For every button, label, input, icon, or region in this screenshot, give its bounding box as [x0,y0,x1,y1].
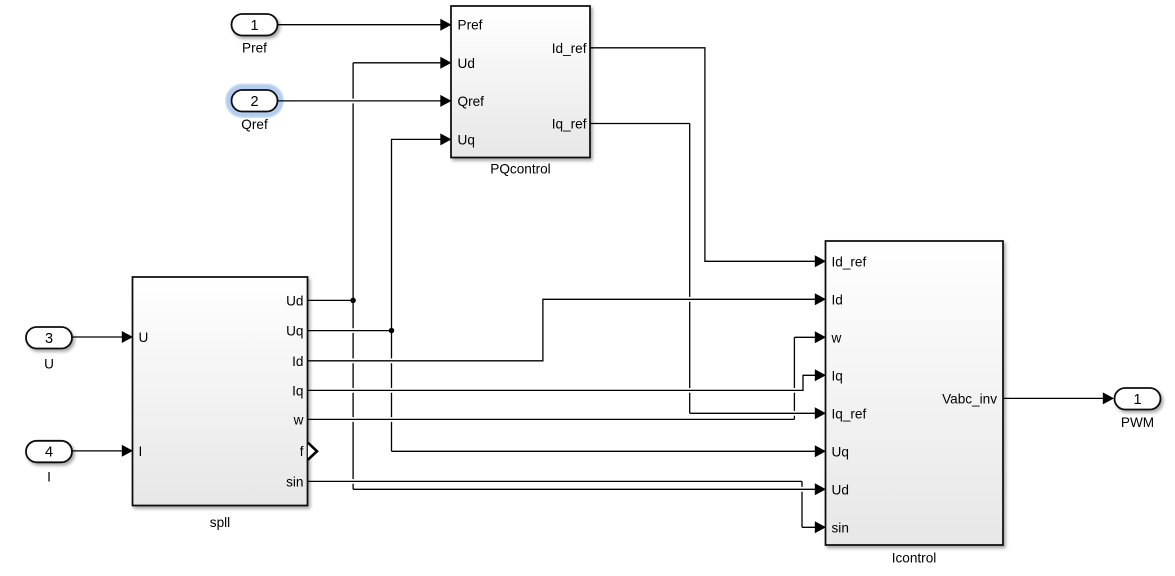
wire spll.Iq to Icontrol.Iq [308,375,817,390]
svg-text:sin: sin [286,474,303,489]
svg-text:Pref: Pref [242,41,267,56]
wire Pref port to PQcontrol.Pref [278,24,442,26]
svg-text:Qref: Qref [241,117,268,132]
wire Icontrol.Vabc_inv to PWM outport [1003,397,1104,399]
svg-text:Ud: Ud [832,482,849,497]
junction dot Uq [389,328,395,334]
inport 4 I [26,441,72,463]
svg-text:Iq: Iq [832,368,843,383]
svg-text:1: 1 [1133,392,1141,408]
wire spll.Uq to junction [308,330,392,332]
svg-text:Ud: Ud [286,293,303,308]
svg-text:Iq_ref: Iq_ref [552,117,587,132]
svg-text:Iq_ref: Iq_ref [832,406,867,421]
svg-text:sin: sin [832,520,849,535]
wire spll.sin to Icontrol.sin [308,481,817,527]
svg-text:Id: Id [832,292,843,307]
svg-text:I: I [47,470,51,485]
svg-text:Icontrol: Icontrol [892,551,937,566]
wire junction down to Icontrol.Uq [392,331,817,452]
svg-text:U: U [139,330,149,345]
svg-text:spll: spll [210,515,230,530]
wire U port to spll.U [72,336,122,338]
svg-text:U: U [44,357,54,372]
svg-text:Pref: Pref [458,18,483,33]
inport 1 Pref [232,14,278,36]
wire junction up to PQcontrol.Ud [353,63,441,301]
svg-text:3: 3 [45,331,53,347]
subsystem block spll [133,277,308,506]
svg-text:PQcontrol: PQcontrol [490,162,550,177]
svg-text:Ud: Ud [458,56,475,71]
svg-text:Id_ref: Id_ref [832,254,867,269]
outport 1 PWM [1115,388,1161,410]
wire PQcontrol.Id_ref to Icontrol.Id_ref [590,48,816,261]
inport 2 Qref (selected halo) [227,86,282,117]
svg-text:Uq: Uq [286,324,303,339]
junction dot Ud [350,298,356,304]
unconnected output port f chevron [308,443,317,460]
subsystem block PQcontrol [451,6,590,158]
svg-text:1: 1 [250,18,258,34]
wire Qref port to PQcontrol.Qref [278,100,442,102]
svg-text:PWM: PWM [1121,415,1154,430]
wire junction down to Icontrol.Ud [353,300,816,489]
svg-text:Id: Id [292,354,303,369]
svg-text:Uq: Uq [832,444,849,459]
svg-text:w: w [293,412,304,427]
svg-text:f: f [300,444,304,459]
wire I port to spll.I [72,450,122,452]
svg-text:Id_ref: Id_ref [552,41,587,56]
svg-text:Uq: Uq [458,132,475,147]
wire junction up to PQcontrol.Uq [392,139,442,330]
svg-text:Qref: Qref [458,94,485,109]
wire spll.w to Icontrol.w [308,337,817,419]
subsystem block Icontrol [826,241,1004,545]
svg-text:4: 4 [45,445,53,461]
svg-text:Vabc_inv: Vabc_inv [942,391,997,406]
wire spll.Id to Icontrol.Id [308,299,817,361]
wire PQcontrol.Iq_ref to Icontrol.Iq_ref [590,124,816,414]
wire spll.Ud to junction [308,299,354,301]
svg-text:I: I [139,444,143,459]
svg-text:Iq: Iq [292,383,303,398]
inport 3 U [26,327,72,349]
svg-text:w: w [831,330,842,345]
svg-text:2: 2 [250,94,258,110]
